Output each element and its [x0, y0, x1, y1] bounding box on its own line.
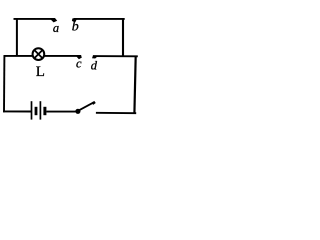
switch pivot dot — [75, 109, 80, 114]
terminal a tick — [50, 18, 57, 22]
wire left outer vertical — [3, 55, 5, 112]
wire right outer vertical — [134, 56, 135, 114]
terminal b tick — [72, 18, 77, 22]
terminal d tick — [92, 56, 97, 59]
svg-text:c: c — [76, 56, 82, 70]
wire top-left horizontal segment — [14, 18, 56, 20]
battery cell 1 long plate — [31, 101, 33, 119]
wire middle-left horizontal segment — [4, 55, 33, 57]
wire middle segment lamp to c — [44, 55, 81, 57]
wire top-right vertical drop — [122, 18, 124, 56]
svg-text:a: a — [53, 21, 59, 35]
wire middle-right horizontal segment — [93, 55, 138, 57]
switch lever (open) — [79, 102, 94, 110]
svg-text:d: d — [91, 59, 98, 73]
battery cell 2 short plate — [43, 107, 46, 115]
battery cell 2 long plate — [39, 101, 41, 119]
lamp L (circle with X) — [33, 48, 45, 60]
battery cell 1 short plate — [35, 107, 38, 115]
terminal c tick — [76, 56, 82, 60]
wire top-left vertical drop — [16, 18, 18, 56]
wire bottom-left horizontal segment — [3, 110, 31, 112]
svg-text:L: L — [36, 64, 45, 80]
svg-text:b: b — [72, 20, 79, 35]
switch lever tip cap — [92, 102, 95, 104]
wire switch to bottom-right — [96, 112, 136, 114]
wire top-right horizontal segment — [73, 18, 124, 20]
wire battery to switch — [46, 111, 75, 113]
